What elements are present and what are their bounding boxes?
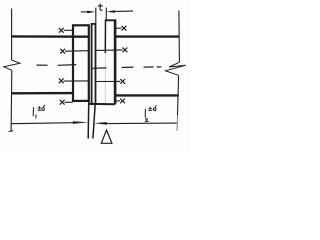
right end plate top edge	[105, 19, 116, 21]
label l2	[145, 109, 148, 121]
weld mark R3	[120, 79, 125, 84]
weld mark L4	[60, 100, 65, 105]
weld mark L2	[60, 49, 65, 54]
right end plate left edge (upper)	[104, 20, 106, 53]
label l2 tolerance +/- delta	[149, 107, 152, 110]
joint extension line right (to bottom dims)	[93, 104, 95, 138]
right break edge (lower part)	[178, 75, 179, 115]
bottom bar under joint	[89, 103, 115, 105]
weld tail R3	[96, 80, 120, 82]
l2 dimension line	[107, 122, 177, 125]
weld mark L3	[59, 78, 64, 83]
weld tail R4	[115, 100, 120, 102]
tolerance triangle (delta)	[101, 130, 112, 143]
t dimension line right part	[115, 10, 133, 12]
left edge bottom tick	[9, 130, 14, 133]
l1 dimension arrow	[73, 121, 89, 124]
left shim plate	[92, 24, 96, 104]
right axis centerline	[92, 67, 162, 69]
left break edge (lower part)	[10, 70, 13, 131]
weld mark R4	[120, 99, 125, 104]
weld mark R2	[123, 48, 128, 53]
weld tail L3	[64, 80, 89, 82]
left break zigzag	[4, 60, 20, 70]
left break edge (upper part)	[11, 9, 13, 61]
right end plate right edge	[114, 20, 117, 105]
weld tail R1	[116, 27, 122, 29]
t dimension extension line right	[105, 8, 107, 20]
right break zigzag	[166, 62, 186, 75]
t dimension extension line left	[95, 8, 97, 24]
t dimension line left part	[81, 11, 88, 13]
t dimension arrow right	[107, 10, 115, 13]
l1 dimension line	[11, 123, 73, 124]
weld tail L2	[65, 50, 88, 53]
weld mark R1	[122, 26, 127, 31]
weld tail R2	[96, 49, 123, 52]
label l1	[33, 108, 36, 118]
label l1 tolerance +/- delta	[38, 107, 41, 111]
weld tail L4	[65, 101, 73, 103]
left beam top line	[12, 35, 89, 38]
joint extension line left (to bottom dims)	[87, 98, 90, 139]
right break edge (upper part)	[178, 11, 181, 63]
right beam top line	[115, 35, 179, 37]
right end plate left edge (faint lower)	[104, 53, 106, 104]
weld tail L1	[64, 29, 73, 31]
right beam bottom line	[115, 94, 179, 96]
right edge lower extension	[176, 115, 179, 131]
weld mark L1	[59, 28, 64, 33]
t dimension arrow left	[87, 11, 95, 14]
left axis centerline	[37, 64, 77, 67]
left beam bottom line	[11, 92, 72, 95]
label t	[98, 4, 102, 10]
l2 dimension arrow	[94, 122, 107, 125]
left end plate	[73, 25, 89, 101]
